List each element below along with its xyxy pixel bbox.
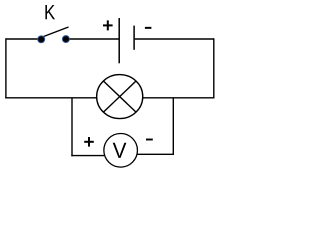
wire voltmeter row right [137,153,174,155]
voltmeter circle [104,134,138,168]
voltmeter plus label [84,137,94,147]
wire voltmeter branch right vertical [172,98,174,155]
wire left vertical [5,38,7,98]
wire voltmeter branch left vertical [71,98,73,157]
lamp X stroke 2 [103,81,136,112]
wire top-middle (switch to battery) [67,38,119,40]
wire top-right (battery to right corner) [135,38,214,40]
switch K left contact dot [37,35,45,43]
lamp circle [97,75,143,119]
label K [45,5,55,19]
switch K right contact dot [62,35,70,43]
battery long plate (+) [118,18,120,63]
battery minus label [145,27,152,29]
wire lamp row left [5,97,97,99]
wire lamp row right [143,97,215,99]
voltmeter minus label [146,139,153,141]
lamp X stroke 1 [103,81,136,112]
battery plus label [103,20,113,30]
switch K lever [41,27,69,38]
voltmeter letter V [113,143,127,158]
wire top-left (left corner to switch) [6,38,40,40]
battery short plate (-) [133,26,135,50]
wire voltmeter row left [71,155,104,157]
wire right vertical [213,38,215,98]
